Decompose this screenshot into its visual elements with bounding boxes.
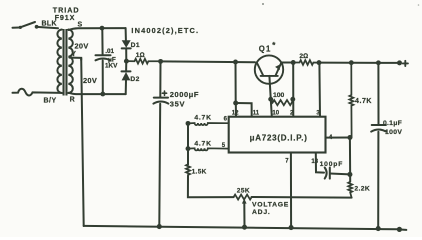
- wire pin 13 down and right: [316, 153, 324, 173]
- node pin7 ground: [289, 225, 294, 230]
- pin labels 12 11 10 2 3: [232, 110, 321, 116]
- resistor 4.7K right: [349, 63, 353, 138]
- ground rail: [84, 226, 400, 229]
- wire rail down to pin 3: [318, 63, 321, 117]
- wire Q1 base down to pin 10: [269, 76, 271, 117]
- wire secondary Y tap to down line: [70, 58, 82, 60]
- wire to pin 11: [236, 103, 252, 117]
- svg-text:R: R: [70, 97, 75, 104]
- capacitor 0.1uF plates: [372, 124, 386, 126]
- node cap-R-wire junction: [100, 92, 105, 97]
- node pin4 junction: [347, 135, 352, 140]
- wire secondary R tap: [69, 93, 126, 94]
- wire node down: [349, 138, 351, 182]
- wire pin 12 stub: [235, 103, 237, 117]
- svg-text:D2: D2: [130, 76, 139, 83]
- diode D1: [122, 40, 131, 61]
- capacitor 0.1uF bottom lead: [377, 132, 379, 228]
- wire top rail to Q1: [161, 60, 255, 63]
- label .01 uF 1KV: [105, 48, 118, 69]
- node divider mid: [186, 146, 191, 151]
- output terminal negative: [397, 227, 402, 232]
- transformer T1 primary winding: [57, 30, 61, 93]
- svg-text:12: 12: [232, 111, 239, 117]
- wire primary bottom with cord squiggle: [13, 89, 62, 96]
- svg-text:Q1: Q1: [259, 44, 272, 53]
- wire Q1 emitter to rail node: [281, 62, 293, 64]
- wire switch to transformer primary top: [37, 27, 58, 28]
- wire pin 7 down to ground rail: [290, 153, 292, 228]
- label VOLTAGE ADJ.: [252, 202, 289, 216]
- capacitor .01uF plates: [96, 54, 111, 56]
- wire secondary S tap: [69, 28, 126, 30]
- resistor 1 ohm: [126, 59, 160, 64]
- pin labels 7 13: [285, 159, 319, 165]
- svg-text:2.2K: 2.2K: [354, 186, 370, 193]
- label Q1 *: [259, 41, 277, 54]
- label 0.1uF 100V: [383, 120, 402, 136]
- svg-text:ADJ.: ADJ.: [252, 209, 271, 216]
- svg-text:4.7K: 4.7K: [194, 141, 211, 148]
- svg-text:20V: 20V: [83, 76, 97, 85]
- output terminal +: [397, 60, 402, 65]
- wire top rail right section: [319, 62, 399, 64]
- node output cap ground: [376, 226, 381, 231]
- capacitor .01uF 1KV line-top: [101, 28, 103, 55]
- svg-text:100pF: 100pF: [320, 161, 344, 168]
- svg-text:100: 100: [273, 92, 285, 99]
- pin labels 6 5: [222, 117, 228, 149]
- transistor Q1: [255, 55, 283, 83]
- resistor 4.7K to pin 5: [188, 148, 229, 150]
- svg-text:IN4002(2),ETC.: IN4002(2),ETC.: [131, 26, 199, 35]
- wire rail down to pins 12/11: [235, 62, 237, 103]
- svg-text:25K: 25K: [237, 187, 250, 194]
- svg-text:1KV: 1KV: [105, 63, 118, 70]
- svg-text:4.7K: 4.7K: [194, 114, 211, 121]
- svg-text:.01: .01: [105, 48, 114, 55]
- resistor 1.5K: [186, 149, 190, 177]
- node after 2 ohm: [317, 60, 322, 65]
- capacitor .01uF line-bottom: [102, 61, 104, 95]
- resistor 4.7K to pin 6: [188, 123, 229, 125]
- resistor 100: [271, 99, 293, 105]
- svg-text:F91X: F91X: [55, 13, 76, 22]
- node 4.7K top: [349, 60, 354, 65]
- resistor 2 ohm: [293, 60, 319, 65]
- svg-text:μA723(D.I.P.): μA723(D.I.P.): [250, 134, 308, 143]
- wire rail down to pin 2: [292, 63, 294, 117]
- svg-text:B/Y: B/Y: [44, 98, 57, 105]
- wire 1.5K to pot: [188, 176, 234, 197]
- transformer T1 secondary winding: [68, 30, 72, 93]
- capacitor 100pF: [325, 168, 350, 179]
- capacitor 0.1uF top lead: [377, 63, 379, 125]
- node V+ tap on rail: [233, 60, 238, 65]
- svg-text:VOLTAGE: VOLTAGE: [252, 202, 289, 209]
- capacitor 2000uF plates: [154, 97, 168, 99]
- transformer core: [63, 29, 68, 96]
- svg-text:D1: D1: [131, 42, 140, 49]
- resistor 2.2K: [348, 182, 352, 198]
- node 100pF junction: [347, 172, 352, 177]
- node filter cap top: [158, 59, 163, 64]
- svg-text:2000μF: 2000μF: [170, 90, 199, 99]
- svg-text:11: 11: [253, 110, 260, 116]
- node S-cap junction: [100, 26, 105, 31]
- switch S1 (line input): [13, 22, 39, 29]
- diode D2: [122, 61, 131, 94]
- speck top: [262, 3, 264, 5]
- svg-text:100V: 100V: [385, 129, 402, 136]
- label TRIAD F91X: [53, 5, 80, 22]
- svg-text:35V: 35V: [170, 99, 185, 108]
- svg-text:10: 10: [272, 111, 279, 117]
- node wiper ground: [242, 225, 247, 230]
- wire S run corner down to D1: [125, 28, 127, 40]
- node filter cap ground: [157, 224, 162, 229]
- wire pin 4 to node: [326, 137, 350, 139]
- pot wiper arrow: [242, 199, 247, 228]
- svg-text:20V: 20V: [75, 41, 89, 50]
- speck top right: [418, 4, 420, 6]
- node output cap top: [376, 60, 381, 65]
- svg-text:4.7K: 4.7K: [355, 98, 372, 105]
- svg-text:0.1μF: 0.1μF: [383, 120, 402, 127]
- node rectifier output: [124, 59, 129, 64]
- wire center-tap down line: [81, 58, 84, 226]
- node divider top: [186, 121, 191, 126]
- capacitor 2000uF bottom lead: [158, 104, 161, 227]
- wire divider column: [187, 123, 189, 164]
- wire pot right to 2.2K bottom: [252, 196, 352, 199]
- IC U1 uA723 box: [229, 117, 326, 153]
- svg-text:1.5K: 1.5K: [192, 169, 207, 176]
- capacitor 2000uF top lead: [159, 61, 161, 97]
- potentiometer 25K: [234, 195, 252, 200]
- label + 2000uF 35V: [162, 90, 199, 108]
